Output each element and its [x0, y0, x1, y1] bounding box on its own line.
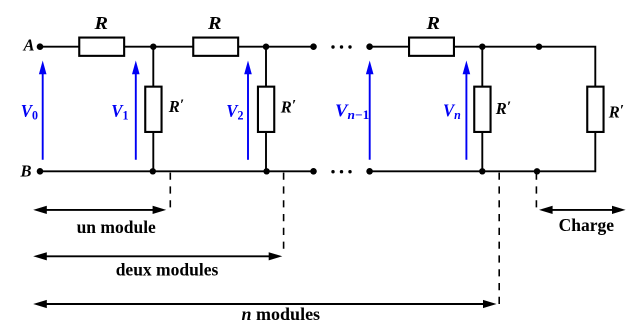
- svg-text:V2: V2: [226, 101, 243, 123]
- junction bottom charge tap: [534, 168, 540, 174]
- svg-text:R: R: [207, 13, 222, 33]
- voltage arrow V2: [244, 61, 252, 160]
- wire top rail R2 to ellipsis: [239, 46, 314, 48]
- dimension arrow charge: [539, 206, 626, 214]
- svg-text:R: R: [93, 13, 108, 33]
- voltage arrow Vn-1: [366, 61, 374, 160]
- node A: [23, 35, 44, 54]
- svg-text:R′: R′: [280, 97, 296, 116]
- wire bottom rail B to ellipsis: [40, 170, 314, 172]
- load resistor R' charge: [587, 87, 603, 132]
- node bottom rail break left: [310, 168, 317, 175]
- svg-text:V0: V0: [21, 101, 38, 123]
- svg-text:Charge: Charge: [559, 215, 615, 235]
- dashed boundary line un module: [169, 173, 171, 209]
- node 2: [263, 44, 269, 50]
- node top rail charge tap: [536, 44, 542, 50]
- junction bottom node n: [479, 168, 485, 174]
- node B: [20, 161, 44, 180]
- wire top rail R3 to load corner: [454, 47, 595, 86]
- dimension arrow n modules: [33, 300, 496, 308]
- svg-text:un module: un module: [77, 217, 156, 237]
- svg-text:Vn: Vn: [443, 101, 461, 123]
- svg-text:deux modules: deux modules: [116, 259, 219, 279]
- wire bottom rail n-1 to load corner: [370, 133, 596, 172]
- voltage arrow V0: [39, 61, 47, 160]
- resistor R3: [409, 38, 454, 56]
- voltage arrow Vn: [463, 61, 471, 160]
- node n-1: [366, 43, 373, 50]
- svg-text:Vn−1: Vn−1: [335, 101, 369, 123]
- svg-text:n modules: n modules: [242, 304, 321, 324]
- svg-text:R′: R′: [495, 99, 511, 118]
- svg-text:R′: R′: [168, 97, 184, 116]
- ellipsis bottom rail: [331, 170, 351, 173]
- wire top rail R1 to R2: [125, 46, 193, 48]
- dashed boundary line deux modules: [283, 173, 285, 254]
- resistor R2: [193, 38, 238, 56]
- dimension arrow deux modules: [33, 252, 282, 260]
- wire top rail A to R1: [40, 46, 79, 48]
- ellipsis top rail: [331, 45, 351, 48]
- shunt resistor R'2: [258, 47, 274, 172]
- svg-text:R: R: [425, 13, 440, 33]
- dashed boundary line n modules: [498, 173, 500, 307]
- node n: [479, 44, 485, 50]
- svg-text:V1: V1: [111, 101, 128, 123]
- node top rail break left: [310, 43, 317, 50]
- svg-text:A: A: [23, 35, 35, 54]
- svg-text:R′: R′: [608, 103, 624, 122]
- node bottom n-1: [366, 168, 373, 175]
- node 1: [150, 44, 156, 50]
- junction bottom node 1: [150, 168, 156, 174]
- voltage arrow V1: [132, 61, 140, 160]
- dashed boundary line charge: [535, 173, 537, 209]
- shunt resistor R'n: [474, 47, 490, 172]
- svg-text:B: B: [20, 161, 32, 180]
- junction bottom node 2: [263, 168, 269, 174]
- resistor R1: [79, 38, 124, 56]
- wire top rail node n-1 to R3: [370, 46, 409, 48]
- dimension arrow un module: [33, 206, 166, 214]
- shunt resistor R'1: [145, 47, 161, 172]
